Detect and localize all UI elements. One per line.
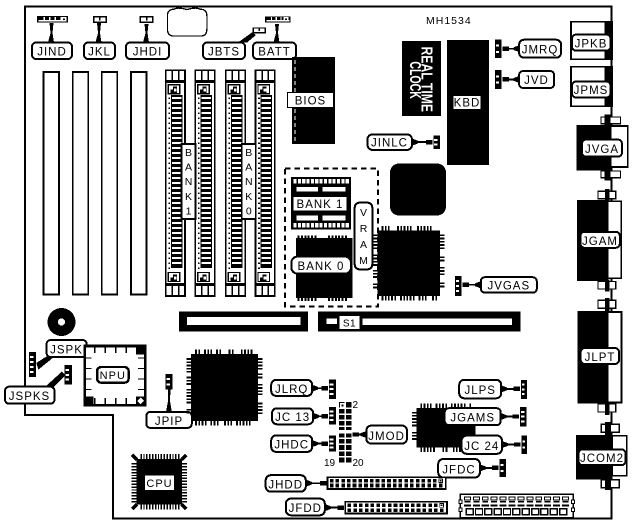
power connector	[459, 494, 575, 518]
BIOS label	[288, 93, 334, 108]
svg-text:NPU: NPU	[100, 370, 126, 382]
SIMM socket 4	[256, 70, 275, 296]
BANK0 chips	[291, 235, 352, 300]
svg-text:BATT: BATT	[258, 47, 291, 59]
tail JHDI	[143, 24, 149, 43]
BIOS chip	[292, 57, 335, 144]
svg-text:JHDI: JHDI	[133, 47, 163, 59]
svg-text:B: B	[185, 147, 192, 159]
header JVD pins	[495, 70, 501, 89]
KBD chip	[447, 40, 489, 165]
tail JKL	[96, 23, 102, 43]
svg-text:1: 1	[186, 205, 192, 217]
svg-text:JFDC: JFDC	[442, 464, 475, 476]
svg-text:R: R	[360, 223, 368, 235]
header JHDI pins	[140, 16, 154, 23]
JPMS connector	[571, 67, 612, 107]
header JGAMS pins	[520, 407, 527, 427]
svg-text:JPIP: JPIP	[155, 416, 183, 428]
header JFDC pins	[499, 459, 506, 477]
svg-text:JGAMS: JGAMS	[450, 413, 495, 425]
svg-text:JLRQ: JLRQ	[275, 384, 308, 396]
svg-text:JSPKS: JSPKS	[9, 391, 50, 403]
svg-text:JVD: JVD	[524, 75, 549, 87]
svg-text:V: V	[360, 207, 367, 219]
label JSPKS	[5, 387, 55, 404]
ISA slot 2	[73, 72, 89, 295]
svg-text:CLOCK: CLOCK	[406, 61, 423, 99]
label BATT	[253, 43, 296, 60]
S1 slot right	[318, 312, 520, 332]
header JC24 pins	[522, 436, 528, 454]
JFDD connector	[345, 502, 447, 514]
header JC13 pins	[329, 407, 336, 424]
svg-text:S1: S1	[343, 319, 356, 330]
svg-text:JIND: JIND	[37, 47, 67, 59]
RTC chip	[402, 41, 441, 116]
label JSPK	[47, 340, 87, 357]
svg-text:BANK 0: BANK 0	[298, 261, 345, 273]
svg-text:JSPK: JSPK	[50, 345, 83, 357]
svg-text:JVGA: JVGA	[585, 144, 619, 156]
svg-text:N: N	[185, 176, 193, 188]
svg-text:CPU: CPU	[146, 478, 172, 490]
JCOM2 connector	[576, 422, 627, 490]
JVGA connector	[577, 115, 628, 181]
svg-text:JLPT: JLPT	[585, 352, 616, 364]
label JVGAS	[475, 281, 481, 288]
header JIND pins	[37, 16, 68, 23]
svg-text:JVGAS: JVGAS	[487, 281, 530, 293]
tail BATT	[274, 24, 280, 43]
svg-text:JCOM2: JCOM2	[580, 453, 624, 465]
header JLPS pins	[521, 380, 527, 399]
label JPIP	[146, 412, 192, 428]
S1 slot left	[179, 312, 308, 332]
label JKL	[84, 43, 115, 60]
svg-text:JPKB: JPKB	[575, 38, 608, 50]
ISA slot 4	[131, 72, 147, 295]
svg-text:A: A	[245, 162, 252, 174]
tail JSPK	[36, 357, 54, 370]
SIMM socket 3	[226, 70, 245, 296]
JPKB connector	[571, 22, 612, 60]
header JINLC pins	[433, 135, 440, 149]
svg-text:JPMS: JPMS	[574, 85, 609, 97]
speaker	[48, 308, 76, 336]
JHDD label	[306, 480, 312, 487]
svg-text:N: N	[245, 176, 253, 188]
JFDD label	[325, 504, 331, 511]
svg-text:20: 20	[353, 458, 365, 469]
svg-text:A: A	[185, 162, 192, 174]
SIMM socket 1	[166, 70, 185, 296]
BANK 0 strip label	[242, 144, 256, 219]
QFP chip U-io	[412, 403, 476, 452]
svg-text:JINLC: JINLC	[371, 138, 408, 150]
header JSPK pins	[29, 352, 36, 377]
tail JBTS	[238, 33, 256, 43]
svg-text:A: A	[360, 239, 367, 251]
svg-text:JHDD: JHDD	[268, 479, 303, 491]
tail JIND	[48, 23, 54, 43]
svg-text:K: K	[185, 191, 192, 203]
ISA slot 1	[44, 72, 60, 295]
JGAM connector	[577, 189, 621, 292]
label JHDI	[126, 43, 169, 60]
QFP chip U-video	[373, 226, 444, 300]
header JLRQ pins	[329, 380, 336, 399]
tail JSPKS	[45, 372, 66, 388]
BANK 1 strip label	[182, 144, 196, 219]
svg-text:2: 2	[353, 400, 359, 411]
svg-text:JBTS: JBTS	[208, 47, 240, 59]
JMOD header	[339, 402, 351, 463]
svg-text:JMRQ: JMRQ	[522, 45, 559, 57]
svg-text:KBD: KBD	[454, 98, 481, 110]
JLPT connector	[578, 298, 622, 415]
header JPIP pins	[166, 374, 173, 390]
svg-text:BIOS: BIOS	[295, 96, 326, 108]
svg-text:M: M	[359, 255, 368, 267]
header JVGAS pins	[455, 276, 462, 296]
label JBTS	[203, 43, 245, 60]
svg-text:MH1534: MH1534	[426, 15, 472, 27]
label JVD	[514, 76, 520, 83]
svg-text:JGAM: JGAM	[582, 236, 618, 248]
battery outline	[167, 8, 207, 36]
JHDD connector	[328, 477, 446, 489]
svg-text:JC 13: JC 13	[275, 412, 310, 424]
header JHDC pins	[329, 435, 336, 451]
header JSPKS pins	[65, 365, 72, 384]
svg-text:0: 0	[246, 205, 252, 217]
header JMRQ pins	[495, 40, 502, 58]
SIMM socket 2	[195, 70, 214, 296]
CPU	[131, 454, 187, 510]
svg-text:JFDD: JFDD	[289, 503, 322, 515]
BANK1 SIMM chips	[291, 177, 351, 230]
svg-text:K: K	[245, 191, 252, 203]
NPU socket U?	[85, 346, 146, 405]
header JKL pins	[93, 16, 107, 23]
svg-text:JMOD: JMOD	[368, 431, 405, 443]
svg-text:JC 24: JC 24	[464, 441, 499, 453]
svg-text:B: B	[245, 147, 252, 159]
VRAM label	[355, 203, 373, 270]
svg-text:BANK 1: BANK 1	[297, 199, 344, 211]
header BATT pins	[265, 16, 291, 22]
dashed box	[285, 169, 378, 307]
header JBTS pins	[253, 27, 266, 33]
label JMOD	[361, 431, 367, 438]
label JIND	[32, 43, 72, 60]
QFP chipset U-sys	[187, 350, 263, 426]
label JINLC	[412, 139, 418, 146]
svg-text:19: 19	[324, 458, 336, 469]
label JMRQ	[514, 45, 520, 52]
rounded chip U?	[390, 164, 446, 216]
svg-text:JHDC: JHDC	[274, 440, 309, 452]
svg-text:JLPS: JLPS	[464, 385, 496, 397]
tail JPIP	[166, 390, 172, 412]
KBD label	[453, 96, 481, 110]
svg-text:JKL: JKL	[88, 47, 111, 59]
ISA slot 3	[102, 72, 118, 295]
